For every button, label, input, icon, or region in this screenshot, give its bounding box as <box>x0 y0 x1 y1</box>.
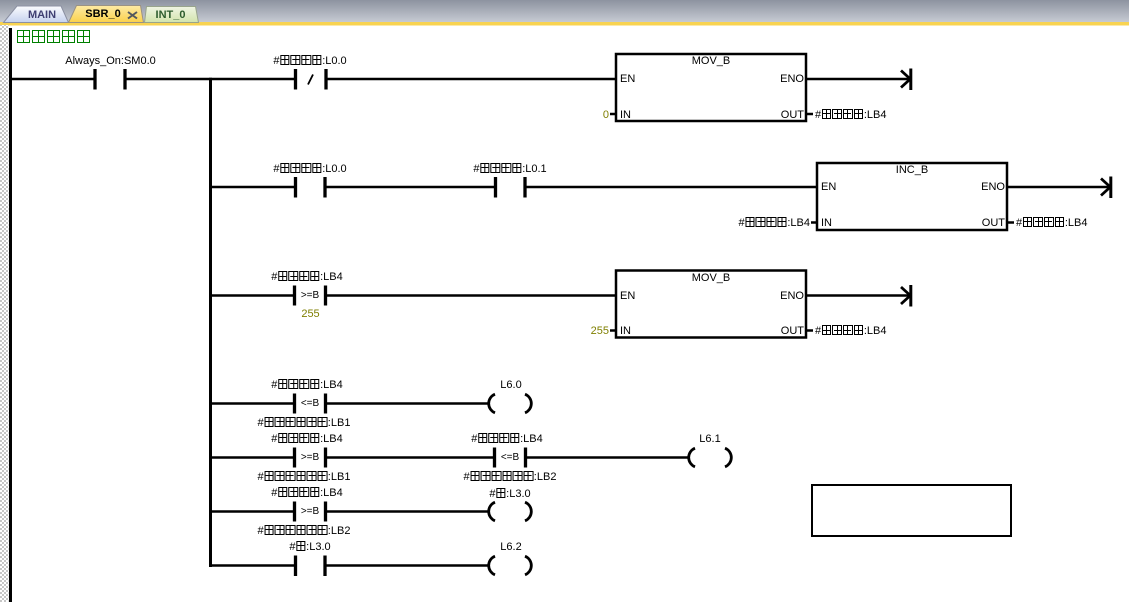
tab bar background <box>0 0 1129 23</box>
block MOV_B row3 <box>616 271 806 338</box>
empty selection box <box>812 485 1011 536</box>
coil label L6.2 <box>500 541 521 553</box>
block INC_B row2 <box>817 163 1007 230</box>
wire row6 seg2 <box>327 510 489 513</box>
wire row7 seg1 <box>211 564 295 567</box>
wire row2 ENO to arrow <box>1008 186 1110 189</box>
block MOV_B row1 IN pin stub <box>610 113 616 116</box>
pin OUT row2 <box>982 217 1005 229</box>
coil L6.0 row4 <box>489 394 532 413</box>
wire row1 seg1 <box>10 78 94 81</box>
close button x <box>128 12 137 19</box>
compare op <=B row4 <box>301 398 319 410</box>
label Always_On:SM0.0 <box>65 55 155 67</box>
block MOV_B row3 OUT pin stub <box>807 329 813 332</box>
left power rail <box>9 28 12 602</box>
wire row2 seg3 <box>526 186 818 189</box>
label #黄灯时间设置:LB2 row5 bottom <box>464 471 557 483</box>
contact NC #切换开关:L0.0 row1 <box>296 69 327 90</box>
wire row1 ENO to arrow <box>807 78 910 81</box>
block MOV_B row1 <box>616 54 806 121</box>
block INC_B row2 OUT pin stub <box>1008 221 1014 224</box>
pin IN row2 <box>821 217 832 229</box>
compare op >=B row5 <box>301 452 319 464</box>
wire row3 ENO to arrow <box>807 294 910 297</box>
value 0 row1 <box>603 109 609 121</box>
pin EN row3 <box>620 290 635 302</box>
label #当前时间:LB4 row5 c2 top <box>471 433 543 445</box>
compare contact row5 <=B <box>495 448 526 468</box>
contact #时钟脉冲:L0.1 row2 <box>496 177 526 198</box>
label #当前时间:LB4 row5 top <box>271 433 343 445</box>
wire row5 seg1 <box>211 456 293 459</box>
wire row5 seg2 <box>327 456 493 459</box>
compare op >=B row3 <box>301 290 319 302</box>
wire row1 seg2 <box>127 78 295 81</box>
wire row4 seg2 <box>327 402 489 405</box>
coil label #红:L3.0 row6 <box>489 488 530 500</box>
contact Always_On:SM0.0 <box>95 69 125 90</box>
label MOV_B title row1 <box>692 55 731 67</box>
pin EN row1 <box>620 73 635 85</box>
compare contact row6 >=B <box>295 502 326 522</box>
coil #红:L3.0 row6 <box>489 502 532 521</box>
block MOV_B row3 IN pin stub <box>610 329 616 332</box>
compare contact row5 >=B <box>295 448 326 468</box>
label #切换开关:L0.0 row2 <box>273 163 346 175</box>
label MOV_B title row3 <box>692 272 731 284</box>
label #当前时间:LB4 row3 top <box>271 271 343 283</box>
left margin strip <box>0 25 9 602</box>
value 255 row3 in <box>591 325 609 337</box>
wire row3 seg2 <box>327 294 616 297</box>
wire row1 seg3 <box>326 78 617 81</box>
branch rail node <box>209 78 212 567</box>
pin IN row3 <box>620 325 631 337</box>
contact #红:L3.0 row7 <box>296 556 326 577</box>
arrow terminator row3 <box>901 285 911 307</box>
tab INT_0 <box>145 7 199 23</box>
active tab underline <box>0 22 1129 26</box>
compare op <=B row5 c2 <box>501 452 519 464</box>
label #时钟脉冲:L0.1 row2 <box>473 163 546 175</box>
tab SBR_0 (active) <box>69 6 144 23</box>
tab label SBR_0 <box>85 8 120 20</box>
label #当前时间:LB4 row2 out <box>1016 217 1088 229</box>
pin IN row1 <box>620 109 631 121</box>
NC slash row1 <box>308 75 313 85</box>
tab label MAIN <box>28 9 56 21</box>
wire row5 seg3 <box>527 456 689 459</box>
label #绿灯时间设置:LB1 row5 bottom <box>258 471 351 483</box>
block INC_B row2 IN pin stub <box>811 221 817 224</box>
block MOV_B row1 OUT pin stub <box>807 113 813 116</box>
pin EN row2 <box>821 181 836 193</box>
label #当前时间:LB4 row1 out <box>815 109 887 121</box>
pin OUT row1 <box>781 109 804 121</box>
compare contact row3 >=B <box>295 286 326 306</box>
label #黄灯时间设置:LB2 row6 bottom <box>258 525 351 537</box>
coil label L6.1 <box>699 433 720 445</box>
compare op >=B row6 <box>301 506 319 518</box>
coil L6.1 row5 <box>689 448 732 467</box>
label #切换开关:L0.0 row1 <box>273 55 346 67</box>
pin ENO row2 <box>981 181 1005 193</box>
arrow terminator row2 <box>1101 177 1111 199</box>
value 255 row3 below <box>301 308 319 320</box>
label #当前时间:LB4 row4 top <box>271 379 343 391</box>
wire row7 seg2 <box>326 564 489 567</box>
tab label INT_0 <box>156 9 186 21</box>
pin ENO row3 <box>780 290 804 302</box>
coil label L6.0 <box>500 379 521 391</box>
coil L6.2 row7 <box>489 556 532 575</box>
pin ENO row1 <box>780 73 804 85</box>
label #当前时间:LB4 row2 in <box>738 217 810 229</box>
label #红:L3.0 row7 <box>289 541 330 553</box>
pin OUT row3 <box>781 325 804 337</box>
label #当前时间:LB4 row6 top <box>271 487 343 499</box>
label #当前时间:LB4 row3 out <box>815 325 887 337</box>
contact #切换开关:L0.0 row2 <box>296 177 326 198</box>
wire row2 seg2 <box>326 186 495 189</box>
wire row2 seg1 <box>211 186 295 189</box>
network comment 程序段注释 <box>16 30 91 42</box>
tab MAIN <box>4 6 69 23</box>
wire row4 seg1 <box>211 402 293 405</box>
wire row6 seg1 <box>211 510 293 513</box>
compare contact row4 <=B <box>295 394 326 414</box>
wire row3 seg1 <box>211 294 293 297</box>
label #绿灯时间设置:LB1 row4 bottom <box>258 417 351 429</box>
arrow terminator row1 <box>901 69 911 91</box>
label INC_B title row2 <box>896 164 928 176</box>
